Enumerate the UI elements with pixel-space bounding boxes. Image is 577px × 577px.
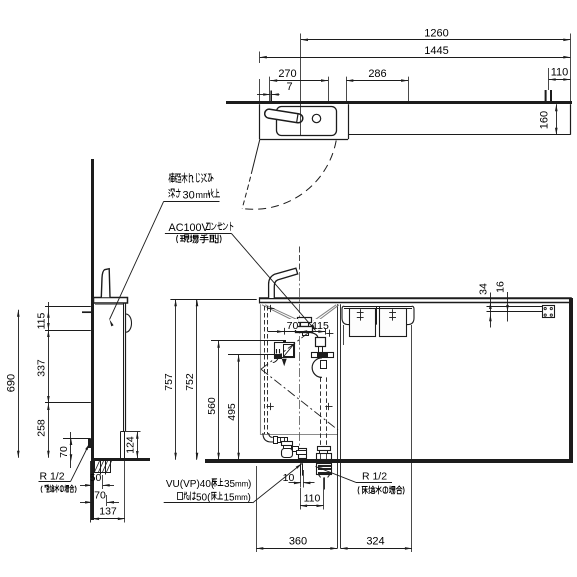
twin paper holder under counter [344,306,412,308]
faucet spout (plan, cylinder) [264,109,303,124]
spout (side view) [101,269,110,298]
faucet mounting plate (plan, rounded) [277,107,337,136]
svg-text:1445: 1445 [424,45,448,57]
svg-text:mm: mm [196,190,211,200]
svg-text:35: 35 [224,479,236,490]
dim 757 [175,299,177,460]
svg-text:VU(VP)40(: VU(VP)40( [166,479,215,490]
height ref lines 560 / 495 [211,340,286,342]
towel-bar bracket ticks (plan) [545,90,547,101]
dim 286 (plan) [346,80,408,82]
dim 324 [411,325,413,552]
svg-text:70: 70 [58,446,70,458]
AC outlet box with plug [275,343,295,358]
plan extension lines [300,34,302,137]
svg-text:110: 110 [304,493,321,505]
drain tailpiece [318,447,331,451]
svg-text:560: 560 [206,397,218,415]
svg-text:115: 115 [312,320,329,332]
svg-text:): ) [248,479,251,490]
svg-text:7: 7 [286,81,292,93]
dim 690 [18,310,20,458]
dim 10 (riser offset) [300,475,302,488]
wall supply connection point [88,439,91,448]
right bracket rail under counter [487,306,543,308]
svg-text:690: 690 [6,374,18,392]
countertop slab (front view) [260,297,572,299]
dim 70 (side bottom) [80,502,92,504]
svg-text:34: 34 [478,283,490,295]
dim 270 (plan) [270,80,328,82]
wall line (plan view, counter back edge) [226,101,572,104]
svg-text:270: 270 [278,68,296,80]
svg-text:110: 110 [551,67,569,79]
unit top cap (side) [94,298,128,304]
dim 7 (plan, small) [257,94,270,96]
supply elbow at cabinet bottom [263,433,273,442]
svg-text:R 1/2: R 1/2 [362,470,387,482]
faucet spout (front view) [269,268,298,298]
svg-text:70: 70 [94,490,106,502]
svg-text:mm: mm [235,493,249,502]
svg-text:324: 324 [366,535,384,547]
floor (side view) [91,458,150,461]
VU drain pipe below floor [317,464,332,475]
dim 1445 (plan) [260,57,571,59]
cabinet outline (front, gray) [260,304,262,435]
supply pipes dashed (wall option) [264,306,266,434]
spout swing range: radius line [253,140,260,170]
svg-text:286: 286 [368,68,386,80]
svg-text:50(: 50( [196,493,211,504]
svg-text:): ) [248,493,251,504]
floor supply stub + hatch (side) [95,461,111,473]
dim 160 (counter depth) [556,104,558,135]
unit body right edge (side) [123,303,125,432]
dim 560 [218,341,220,460]
stop valve + hose to drain [311,333,318,338]
side height reference ticks [45,306,91,308]
dim 34 [490,293,492,328]
dim 16 [507,292,509,322]
slab extension line to dims [170,299,256,301]
svg-text:50: 50 [90,472,102,484]
sink bowl (front, gray) [262,305,298,323]
wall (side view) [91,159,94,520]
svg-text:115: 115 [36,312,48,329]
svg-text:R 1/2: R 1/2 [39,471,64,483]
faucet handle circle (plan) [312,114,320,122]
svg-text:752: 752 [184,373,196,391]
hand-wash unit plan outline [259,104,261,139]
stop valve at floor [282,442,293,446]
svg-text:757: 757 [163,373,175,391]
svg-text:258: 258 [36,419,48,437]
svg-text:495: 495 [226,403,238,421]
counter plan: front edge + right edge [348,134,571,136]
faucet shank / lock nuts under counter [298,318,312,323]
dim 137 (side bottom) [92,518,125,520]
dim 124 (side foot height) [126,431,141,433]
trap (U-bend) [312,358,322,378]
dim 495 [238,355,240,460]
right side panel [569,298,573,463]
svg-text:337: 337 [36,359,48,377]
dim 752 [196,299,198,460]
supply riser through floor [297,451,307,455]
dim chain 115/337/258 [48,302,50,458]
dim 110 (bottom) [300,488,302,510]
svg-text:mm: mm [235,480,249,489]
svg-text:16: 16 [495,281,507,293]
cross marks [267,308,274,310]
svg-text:160: 160 [539,111,551,129]
plug arrow [282,359,287,367]
drain pipe dashed [320,377,322,446]
svg-text:1260: 1260 [424,28,448,40]
dim 70 / 115 (under counter) [286,319,298,330]
handle knob bulge (side) [126,314,132,332]
dim 110 (plan right) [549,79,571,81]
dim 1260 (plan) [301,39,570,41]
svg-text:360: 360 [289,535,307,547]
cover panel diagonals (dash-dot) [261,333,308,369]
dim 70 (wall supply height) [63,438,91,440]
dim 50 (side bottom) [102,475,104,489]
dim 360 [256,466,258,552]
label: reinforcement wood screw note [169,173,174,182]
svg-text:30: 30 [183,190,195,202]
svg-text:AC100V: AC100V [169,222,210,234]
spout swing range: dashed arc [242,141,336,210]
floor (front view) [205,459,573,463]
svg-text:124: 124 [125,436,137,454]
unit bottom step + foot (side) [121,431,126,433]
svg-text:70: 70 [287,320,299,332]
faucet centerline [299,247,301,273]
svg-text:15: 15 [224,493,236,504]
svg-text:137: 137 [99,506,117,518]
